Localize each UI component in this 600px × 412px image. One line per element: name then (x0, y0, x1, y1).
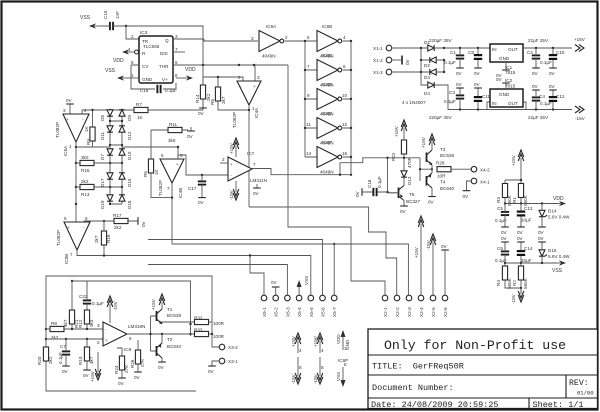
svg-text:X1-1: X1-1 (373, 46, 383, 51)
svg-text:+: + (105, 338, 108, 343)
diode D12 (119, 126, 132, 140)
svg-text:+15V: +15V (511, 154, 516, 166)
+ input row (46, 338, 103, 340)
inverter IC6C (317, 53, 346, 88)
diode D10 (119, 149, 132, 160)
svg-text:OUT: OUT (508, 47, 518, 52)
svg-text:0V: 0V (355, 190, 360, 197)
+15V supply above T3 (421, 134, 435, 148)
svg-text:0V: 0V (187, 134, 194, 139)
svg-text:R14: R14 (195, 94, 200, 103)
svg-text:+15V: +15V (414, 246, 419, 258)
capacitor C15 1nF (103, 10, 120, 30)
svg-text:C22: C22 (79, 294, 88, 299)
capacitor C18 0.1uF (140, 83, 177, 93)
svg-text:IC2: IC2 (505, 78, 513, 83)
svg-text:2: 2 (238, 75, 241, 80)
svg-text:1: 1 (69, 144, 72, 149)
svg-text:+15V: +15V (394, 125, 399, 137)
capacitor C3 0.1uF (444, 82, 464, 110)
svg-text:2: 2 (97, 340, 100, 345)
svg-text:0.1µF: 0.1µF (92, 301, 104, 306)
svg-text:3k3: 3k3 (89, 319, 94, 327)
svg-text:8: 8 (299, 365, 302, 370)
IC3 TLC555 (128, 30, 178, 83)
svg-text:GND: GND (142, 77, 153, 82)
svg-text:D10: D10 (127, 151, 132, 160)
svg-text:27K: 27K (124, 364, 129, 373)
svg-text:-15V: -15V (229, 189, 234, 200)
VSS flag at pin1 GND (105, 68, 139, 81)
svg-text:R11: R11 (169, 122, 178, 127)
svg-text:R12: R12 (78, 319, 83, 328)
svg-text:0V: 0V (66, 98, 73, 103)
svg-text:3: 3 (175, 34, 178, 39)
svg-text:0.1µF: 0.1µF (444, 60, 456, 65)
svg-text:BC327: BC327 (406, 199, 420, 204)
svg-text:IC6F: IC6F (322, 140, 332, 145)
VDD flag at pin8 V+ (176, 67, 196, 81)
svg-text:GND: GND (345, 339, 350, 350)
svg-text:LM311N: LM311N (250, 178, 267, 183)
inverter IC6F (317, 140, 348, 175)
wire staircase to X2-1 via output bus (288, 65, 385, 296)
svg-text:R7: R7 (136, 102, 142, 107)
svg-text:BC538: BC538 (440, 153, 454, 158)
svg-text:VSS: VSS (304, 276, 309, 285)
capacitor C13 10uF (517, 204, 533, 236)
svg-text:R1: R1 (512, 197, 517, 203)
wire IC4A output long vertical (248, 105, 250, 207)
svg-text:15: 15 (342, 151, 348, 156)
svg-text:22µF 25V: 22µF 25V (528, 115, 549, 120)
svg-text:2: 2 (84, 108, 87, 113)
svg-text:IC6C: IC6C (322, 53, 333, 58)
resistor R9 1K (84, 110, 95, 147)
+15V supply above R22 (394, 120, 407, 137)
diode D7 (100, 149, 113, 160)
svg-text:VSS: VSS (552, 268, 563, 274)
capacitor C7 0.1uF (58, 339, 70, 374)
svg-text:8: 8 (344, 362, 347, 367)
wire left column (109, 110, 111, 204)
svg-text:D15: D15 (127, 178, 132, 187)
svg-text:11: 11 (306, 122, 311, 127)
connector X5-4 (296, 295, 302, 317)
+15V flag pair 1 (291, 333, 302, 353)
output row to T1/T2 bases (127, 316, 195, 351)
diode D19 (100, 195, 113, 209)
svg-text:C15: C15 (103, 10, 108, 19)
svg-text:3: 3 (63, 108, 66, 113)
svg-text:VSS: VSS (80, 15, 91, 21)
svg-text:X2-2: X2-2 (395, 307, 400, 317)
wire C15 to TR and THR (100, 26, 203, 65)
VSS arrow over X5-4 (297, 276, 309, 296)
svg-text:R28: R28 (436, 161, 445, 166)
svg-text:0V: 0V (62, 369, 69, 374)
op-amp IC5B TL082P (56, 216, 90, 264)
svg-text:6: 6 (343, 64, 346, 69)
svg-text:C8: C8 (468, 50, 474, 55)
op-amp IC4A TL082P (232, 75, 261, 128)
svg-text:C5: C5 (497, 206, 503, 211)
-15V flag pair 1 (291, 357, 302, 384)
svg-text:1K: 1K (84, 125, 89, 132)
svg-text:V+: V+ (162, 77, 168, 82)
svg-text:C18: C18 (140, 88, 149, 93)
svg-text:D14: D14 (548, 209, 557, 214)
resistor R28 10R (436, 161, 471, 179)
op-amp IC5A TL082P (55, 108, 89, 156)
resistor R17 2k2 (84, 213, 138, 230)
svg-text:Sheet: 1/1: Sheet: 1/1 (533, 400, 584, 410)
connector X4-1 (463, 178, 491, 199)
transistor T1 BC538 (157, 307, 196, 324)
connector X5-2 (273, 295, 279, 317)
resistor R7 1K (82, 65, 203, 120)
wire LM311 inputs (220, 162, 228, 164)
VSS supply flag (80, 15, 100, 29)
svg-text:D11: D11 (100, 131, 105, 140)
connector X1-2 (373, 57, 392, 63)
op-amp IC4B TL082P (158, 153, 184, 198)
svg-text:R6: R6 (210, 99, 215, 105)
svg-text:C2: C2 (527, 50, 533, 55)
svg-text:R16: R16 (106, 234, 111, 243)
svg-text:R5: R5 (143, 171, 148, 177)
svg-text:4: 4 (343, 35, 346, 40)
svg-text:D12: D12 (127, 131, 132, 140)
svg-text:D17: D17 (100, 178, 105, 187)
connector X3-1 (208, 358, 238, 374)
svg-text:TITLE: GerFReq50R: TITLE: GerFReq50R (372, 362, 464, 372)
svg-text:X5-4: X5-4 (297, 307, 302, 317)
connector X5-3 (285, 295, 291, 317)
svg-text:C3: C3 (449, 90, 455, 95)
svg-text:0V: 0V (456, 71, 463, 76)
svg-text:5: 5 (64, 216, 67, 221)
svg-text:R26: R26 (130, 359, 135, 368)
+15V supply (511, 150, 524, 166)
svg-text:+: + (253, 84, 256, 89)
resistor R15 3k0 (76, 155, 110, 173)
connector X2-4 (418, 295, 424, 317)
svg-text:0V: 0V (501, 230, 508, 235)
svg-text:LM318N: LM318N (128, 324, 145, 329)
svg-text:0V: 0V (141, 220, 146, 227)
resistor R5 1K (143, 130, 172, 198)
diode D3 (430, 69, 436, 75)
svg-text:4049N: 4049N (320, 170, 334, 175)
svg-text:X5-6: X5-6 (321, 307, 326, 317)
VDD flag at pin4 R (113, 49, 135, 64)
wire IC5A output bus (75, 142, 77, 222)
wire to X5-6 (148, 240, 323, 296)
resistor R22 470R (391, 134, 412, 168)
wire pin7 DIS stub (173, 51, 185, 53)
svg-text:0V: 0V (400, 209, 407, 214)
svg-text:+15V: +15V (421, 136, 426, 148)
svg-text:0V: 0V (517, 230, 524, 235)
svg-text:+: + (230, 162, 233, 167)
svg-text:IC5A: IC5A (63, 145, 68, 156)
svg-text:CV: CV (142, 64, 149, 69)
svg-text:10µF: 10µF (521, 258, 532, 263)
svg-text:0V: 0V (532, 71, 539, 76)
wire IC4A input rail (203, 65, 255, 81)
svg-text:4: 4 (299, 348, 302, 353)
resistor R8 2k2 (46, 321, 103, 340)
svg-text:C1: C1 (450, 50, 456, 55)
svg-text:T5: T5 (409, 192, 415, 197)
svg-text:IC4B: IC4B (178, 188, 183, 198)
resistor R20 2k2 (37, 347, 53, 365)
svg-text:2: 2 (131, 34, 134, 39)
svg-text:D2: D2 (424, 63, 430, 68)
svg-text:TLC555: TLC555 (143, 44, 160, 49)
svg-text:R33: R33 (194, 328, 203, 333)
svg-text:+: + (67, 225, 70, 230)
svg-text:0.1µF: 0.1µF (377, 176, 382, 188)
svg-text:9: 9 (307, 93, 310, 98)
resistor R24 27K (114, 348, 129, 386)
svg-text:220µF 35V: 220µF 35V (429, 115, 453, 120)
svg-text:0V: 0V (158, 365, 165, 370)
-15V flag pair 2 (313, 357, 324, 384)
svg-text:X5-5: X5-5 (309, 307, 314, 317)
svg-text:+15V: +15V (313, 335, 318, 347)
svg-text:R20: R20 (37, 356, 42, 365)
svg-text:R4: R4 (496, 280, 501, 286)
svg-text:-15V: -15V (291, 373, 296, 384)
svg-text:0V: 0V (538, 236, 545, 241)
svg-text:-15V: -15V (511, 293, 516, 304)
+15V flag over X2-4 (414, 216, 424, 296)
wire staircase to X2-1 (249, 207, 397, 296)
svg-text:1nF: 1nF (115, 11, 120, 19)
svg-text:8: 8 (175, 73, 178, 78)
svg-text:0V: 0V (474, 71, 481, 76)
output node to X3 (212, 322, 220, 347)
capacitor at X1-2 (392, 56, 410, 66)
title block (368, 329, 598, 410)
zener D15 5.6V (538, 236, 570, 263)
svg-text:X5-2: X5-2 (274, 307, 279, 317)
svg-text:X2-4: X2-4 (419, 307, 424, 317)
svg-text:D13: D13 (407, 176, 412, 185)
svg-text:0.1µF: 0.1µF (444, 99, 456, 104)
svg-text:C14: C14 (524, 246, 533, 251)
+15V output (574, 37, 586, 52)
resistor R14 2k2 (195, 77, 211, 106)
svg-text:1K: 1K (137, 115, 144, 120)
ground 0V below R14 (198, 104, 207, 116)
capacitor C2 0.1uF (527, 48, 552, 76)
svg-text:IC8: IC8 (124, 347, 132, 352)
ground 0V above IC5A (66, 98, 74, 114)
output bus (343, 41, 351, 175)
svg-text:2: 2 (285, 35, 288, 40)
svg-text:REV:: REV: (569, 379, 589, 388)
svg-text:OUT: OUT (508, 101, 518, 106)
svg-text:D7: D7 (100, 154, 105, 160)
resistor R3 560K (496, 184, 512, 207)
svg-text:7: 7 (167, 186, 170, 191)
svg-text:R13: R13 (81, 192, 90, 197)
svg-text:BC640: BC640 (167, 344, 181, 349)
capacitor C5 0.1uF (495, 204, 509, 236)
VDD node (505, 203, 557, 205)
svg-text:0V: 0V (405, 58, 410, 65)
svg-text:X2-6: X2-6 (443, 307, 448, 317)
svg-text:-15V: -15V (575, 116, 586, 121)
inverter IC6D (317, 82, 348, 117)
diode D11 (100, 126, 113, 140)
svg-text:3: 3 (257, 75, 260, 80)
zener D14 5.6V (538, 204, 570, 236)
svg-text:2k2: 2k2 (114, 225, 122, 230)
svg-text:X1-2: X1-2 (373, 58, 383, 63)
svg-text:3k0: 3k0 (81, 155, 89, 160)
connector X2-6 (442, 295, 448, 317)
wire to IC4B + input (122, 147, 178, 159)
-15V supply above LM318 (107, 296, 118, 323)
svg-text:560K: 560K (523, 194, 528, 206)
bridge wires (392, 48, 491, 110)
svg-text:7815: 7815 (505, 70, 516, 75)
wire LM311 output line to T5 (252, 163, 351, 175)
svg-text:0V: 0V (118, 381, 125, 386)
svg-text:VSS: VSS (336, 372, 341, 381)
connector X2-5 (430, 295, 436, 317)
capacitor C17 (188, 175, 206, 198)
svg-text:+15V: +15V (574, 37, 586, 42)
svg-text:10: 10 (342, 93, 348, 98)
+15V supply above T1 (151, 294, 165, 310)
resistor R21 4k7 (63, 281, 79, 329)
connector X2-2 (394, 295, 400, 317)
svg-text:Only for Non-Profit use: Only for Non-Profit use (384, 338, 566, 353)
svg-text:5.6V 0.4W: 5.6V 0.4W (548, 254, 570, 259)
svg-text:7815: 7815 (505, 84, 516, 89)
svg-text:0V: 0V (549, 84, 556, 89)
svg-text:C12: C12 (556, 94, 565, 99)
feedback wire loop (46, 276, 212, 391)
resistor R11 3k8 (151, 122, 188, 143)
svg-text:+15V: +15V (229, 142, 234, 154)
capacitor C22 0.1uF (79, 281, 104, 310)
op-amp LM318N IC8 (97, 322, 145, 352)
svg-text:4: 4 (321, 348, 324, 353)
svg-text:R32: R32 (194, 316, 203, 321)
svg-text:C6: C6 (497, 246, 503, 251)
svg-text:C17: C17 (188, 186, 197, 191)
svg-text:0V: 0V (496, 77, 503, 82)
svg-text:Document Number:: Document Number: (372, 383, 454, 393)
svg-text:100R: 100R (213, 334, 225, 339)
svg-text:T4: T4 (440, 180, 446, 185)
svg-text:2k7: 2k7 (94, 235, 99, 243)
svg-text:T2: T2 (167, 337, 173, 342)
-15V supply below (511, 288, 524, 304)
diode D8 (100, 110, 113, 121)
svg-text:3: 3 (251, 36, 254, 41)
svg-text:0V: 0V (474, 82, 481, 87)
svg-text:THR: THR (159, 64, 169, 69)
svg-text:+15V: +15V (291, 335, 296, 347)
svg-text:DIS: DIS (160, 51, 168, 56)
wire out rail (523, 47, 572, 49)
svg-text:01/00: 01/00 (577, 390, 594, 397)
diode D17 (100, 173, 113, 187)
connector X5-7 (331, 295, 337, 317)
svg-text:7: 7 (253, 162, 256, 167)
svg-text:6: 6 (161, 153, 164, 158)
regulator IC1 7815 (490, 44, 523, 78)
svg-text:R8: R8 (51, 321, 57, 326)
wire IC6A out to input bus (285, 40, 317, 42)
svg-text:R15: R15 (81, 168, 90, 173)
svg-text:0V: 0V (253, 191, 260, 196)
resistor R10 4k7 (78, 339, 94, 378)
svg-text:X2-1: X2-1 (383, 307, 388, 317)
svg-text:X5-1: X5-1 (262, 307, 267, 317)
svg-text:0V: 0V (271, 280, 278, 285)
connector X1-3 (373, 69, 392, 75)
svg-text:X4-1: X4-1 (480, 180, 490, 185)
svg-text:R9: R9 (86, 139, 91, 145)
svg-text:VDD: VDD (336, 334, 341, 344)
transistor T5 BC327 (388, 186, 421, 215)
svg-text:-15V: -15V (113, 300, 118, 311)
resistor R33 100R (194, 328, 225, 340)
svg-text:10µF: 10µF (521, 218, 532, 223)
svg-text:C7: C7 (60, 344, 66, 349)
svg-text:-15V: -15V (313, 373, 318, 384)
wire pin6 THR line (173, 64, 288, 66)
svg-text:GND: GND (499, 92, 510, 97)
wire X5-7 to signal line (333, 244, 335, 296)
svg-text:X2-3: X2-3 (407, 307, 412, 317)
svg-text:VSS: VSS (105, 68, 116, 74)
diode D18 (119, 195, 132, 209)
ground 0V right of R11 (187, 127, 195, 139)
svg-text:560K: 560K (523, 277, 528, 289)
svg-text:4k7: 4k7 (89, 356, 94, 364)
diode D4 (424, 82, 434, 96)
resistor R1 560K (512, 184, 528, 207)
wire IC5B output (77, 250, 311, 296)
resistor R26 27K (130, 340, 145, 380)
svg-text:X5-7: X5-7 (332, 307, 337, 317)
svg-text:0V: 0V (83, 373, 90, 378)
svg-text:C4: C4 (539, 94, 545, 99)
svg-text:0V: 0V (456, 82, 463, 87)
svg-text:100R: 100R (213, 321, 225, 326)
capacitor C14 10uF (517, 236, 533, 263)
inverter IC6E (317, 111, 348, 146)
diode D2 (430, 57, 436, 63)
svg-text:IC4A: IC4A (254, 107, 259, 118)
svg-text:0V: 0V (532, 84, 539, 89)
svg-text:BC640: BC640 (440, 186, 454, 191)
wire to X5-1 (250, 256, 264, 296)
svg-text:6: 6 (85, 216, 88, 221)
+15V supply above IC7 (229, 138, 239, 157)
svg-text:IC6B: IC6B (322, 24, 332, 29)
+15V flag pair 2 (313, 333, 324, 353)
